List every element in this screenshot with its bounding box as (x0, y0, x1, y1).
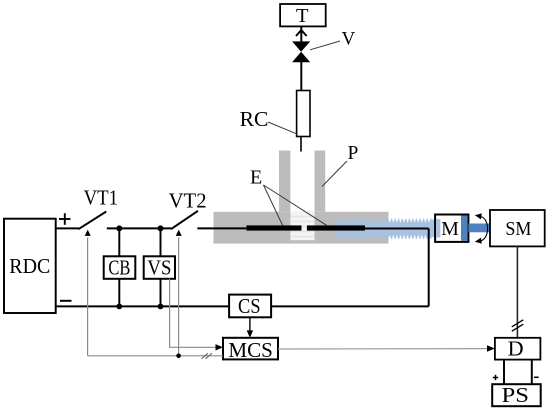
svg-text:T: T (296, 5, 309, 27)
label P with leader (322, 143, 359, 187)
svg-text:CS: CS (238, 294, 261, 318)
wire RDC+ to VT1 (56, 227, 79, 229)
node at VS column top (158, 225, 164, 231)
svg-text:RC: RC (240, 107, 269, 131)
plus terminal of RDC (59, 213, 71, 225)
svg-text:MCS: MCS (228, 338, 273, 362)
svg-text:D: D (508, 337, 524, 361)
plus label at PS (493, 375, 498, 380)
wire RC to pipe (300, 137, 302, 152)
wire CB column bottom (118, 279, 120, 307)
control unit MCS (223, 338, 278, 362)
svg-text:VS: VS (147, 256, 171, 280)
valve V (292, 41, 310, 62)
reaction chamber RC (297, 91, 310, 137)
wire CS to rod loop (271, 305, 429, 307)
power supply PS (492, 383, 541, 407)
current sensor CS (229, 294, 271, 318)
threaded rod (feed screw) (336, 219, 432, 239)
pipe P right wall (315, 151, 326, 212)
svg-text:SM: SM (505, 218, 531, 240)
svg-text:RDC: RDC (9, 254, 50, 278)
label V with leader (310, 29, 356, 50)
pipe P horizontal bar (214, 212, 389, 244)
wire D to PS right (531, 360, 533, 385)
motor M (435, 215, 468, 242)
nozzle slot channel (290, 212, 314, 240)
rectifier RDC (4, 219, 56, 313)
rod end nub into M (432, 220, 437, 238)
svg-text:V: V (342, 29, 356, 50)
control line VS to MCS (170, 279, 223, 351)
wire valve to RC (300, 61, 302, 91)
control line MCS to D (278, 345, 495, 352)
switch VT2 lever (171, 211, 198, 229)
svg-text:CB: CB (108, 256, 130, 280)
wire CB column top (118, 228, 120, 256)
capacitor bank CB (104, 256, 136, 280)
label E with two leader lines (250, 166, 327, 225)
wire VS column bottom (160, 279, 162, 307)
svg-text:VT2: VT2 (169, 189, 207, 213)
minus label at PS (534, 376, 539, 378)
box T (280, 4, 326, 27)
control line MCS to VT1 and VT2 (85, 230, 223, 359)
shaft M to SM (468, 224, 490, 233)
wire D to PS left (503, 360, 505, 385)
voltage sensor VS (144, 256, 175, 280)
wire down from rod (428, 229, 430, 307)
electrode E right (307, 225, 365, 230)
pipe P left wall (279, 151, 290, 212)
stepper motor SM (490, 210, 545, 246)
wire VT1 to VT2 (107, 227, 171, 229)
node at CB column bottom (116, 304, 122, 310)
wire right electrode through rod (365, 228, 429, 230)
wire VT2 to electrode (197, 227, 246, 229)
electrode E left (246, 225, 301, 230)
node at CB column top (116, 225, 122, 231)
svg-text:P: P (348, 143, 359, 164)
wire valve to T with chevron arrow (296, 26, 307, 41)
svg-text:E: E (250, 166, 262, 188)
wire RDC- to CS (56, 305, 229, 307)
svg-text:VT1: VT1 (84, 185, 119, 209)
node at VS column bottom (158, 304, 164, 310)
wire SM to D with break slashes (512, 246, 524, 337)
rotation arrows around shaft (475, 213, 488, 243)
switch VT1 lever (78, 212, 106, 230)
driver D (495, 337, 541, 361)
arrow CS to MCS (247, 317, 254, 337)
wire VS column top (160, 228, 162, 256)
minus terminal of RDC (60, 300, 72, 302)
svg-text:PS: PS (502, 383, 530, 407)
svg-text:M: M (441, 218, 459, 240)
label RC with leader (240, 107, 297, 134)
